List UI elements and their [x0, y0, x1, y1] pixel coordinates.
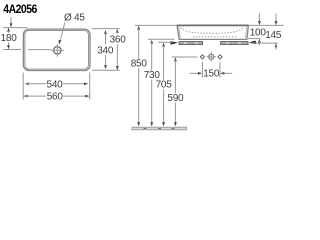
svg-text:4A2056: 4A2056 [3, 2, 37, 16]
extension line top-right of plan view [92, 28, 120, 30]
elevation inner rim wall lines [179, 26, 247, 38]
extension line top-left of plan view [3, 27, 27, 29]
leader line for tap hole diameter [59, 23, 65, 45]
extension line strip bottom right [251, 42, 278, 44]
svg-text:705: 705 [156, 80, 173, 91]
right sealing strip [221, 42, 249, 45]
tap hole symbol (circle with crosshair) [51, 44, 64, 57]
top extension line across elevation view [135, 24, 284, 26]
centerline inside plan view [28, 49, 51, 51]
centerline left of plan view [3, 49, 21, 51]
leader arrow from model number to basin top edge [10, 17, 13, 27]
extension line strip level left [158, 41, 173, 43]
extension line ceramic bottom right [248, 38, 261, 40]
dimension 340 (plan inner length) [97, 30, 114, 69]
svg-text:145: 145 [265, 30, 282, 41]
dimension 180 (plan, top edge to tap hole center) [1, 28, 18, 50]
svg-text:360: 360 [110, 35, 127, 46]
elevation basin top edge [177, 24, 249, 26]
extension line right for 150 [219, 62, 221, 78]
dimension 145 (elevation height incl. strip) [265, 14, 282, 50]
elevation hidden bowl bottom line (dashed) [193, 36, 236, 38]
svg-text:150: 150 [203, 69, 220, 80]
dimension 730 (height to ceramic bottom) [144, 40, 161, 127]
right black pointer arrow [249, 41, 256, 45]
svg-text:540: 540 [47, 79, 64, 90]
svg-text:Ø 45: Ø 45 [64, 12, 85, 23]
floor line with hatch bar [132, 127, 187, 130]
left sealing strip [179, 42, 203, 45]
dimension 560 (plan outer width) [23, 92, 89, 103]
extension line ceramic bottom left [148, 38, 175, 40]
dimension 590 (height to drain) [167, 57, 184, 126]
elevation hidden inner bowl contour (dotted) [181, 28, 244, 34]
dimension 540 (plan inner width) [25, 79, 89, 90]
svg-text:560: 560 [47, 92, 64, 103]
left black pointer arrow [171, 41, 178, 45]
extension line bottom-right below plan [89, 73, 91, 100]
dimension 150 (tap hole spacing) [190, 69, 232, 80]
extension line drain level [172, 56, 198, 58]
extension line bottom-left below plan [22, 73, 24, 100]
dimension 850 (height to rim) [131, 26, 148, 127]
dimension 360 (plan outer length) [110, 29, 127, 70]
dimension 100 (elevation basin height) [250, 14, 267, 46]
svg-text:850: 850 [131, 58, 148, 69]
plan view inner rim [25, 31, 89, 70]
extension line left for 150 [201, 62, 203, 78]
left alternative tap hole (diamond) [200, 55, 204, 59]
svg-text:100: 100 [250, 27, 267, 38]
dimension 705 (height to strip) [156, 43, 173, 127]
right alternative tap hole (diamond) [218, 55, 222, 59]
extension line bottom-right of plan view [92, 69, 120, 71]
drain hole symbol (circle with crosshair) [206, 52, 216, 62]
plan view outer rim [23, 29, 90, 70]
elevation basin outline [177, 26, 248, 40]
svg-text:590: 590 [167, 93, 184, 104]
